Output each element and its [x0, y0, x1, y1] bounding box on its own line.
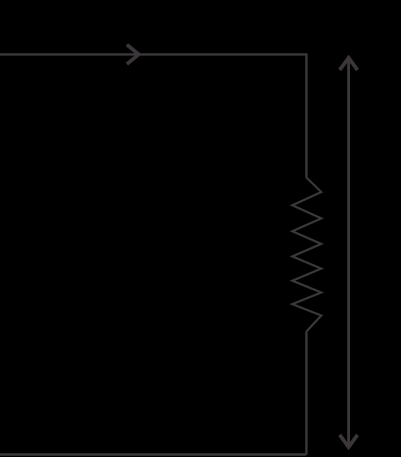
resistor R (zigzag)	[292, 178, 321, 332]
voltage arrow bottom arrowhead (chevron down)	[340, 435, 358, 447]
wire: right vertical from top corner down to resistor top terminal	[305, 53, 307, 177]
voltage arrow shaft (vertical line at right)	[347, 57, 350, 445]
current direction arrowhead (chevron) on top wire	[127, 45, 139, 64]
wire: bottom horizontal return from bottom-right corner to left edge	[0, 453, 306, 455]
wire: right vertical from resistor bottom terminal to bottom-right corner	[305, 332, 307, 455]
wire: top horizontal from left edge to top-right corner	[0, 53, 306, 55]
voltage arrow top arrowhead (chevron up)	[340, 58, 358, 70]
